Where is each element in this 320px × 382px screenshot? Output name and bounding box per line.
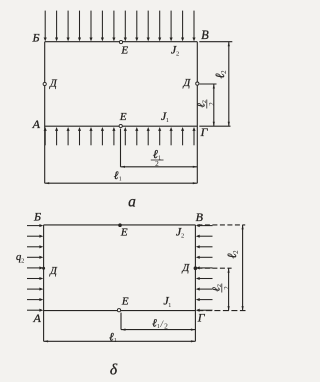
plate a top edge БВ bbox=[45, 41, 198, 43]
extension line from node Е down to l1/2 dimension, plate a bbox=[120, 129, 122, 167]
value label l2/2 (rotated fraction), plate b bbox=[211, 284, 231, 293]
plate b right edge ВГ with extension down bbox=[194, 225, 196, 341]
extension line from corner В to l2 dimension bbox=[199, 41, 232, 43]
distributed load q2 arrows, left edge of plate b (pointing right) bbox=[27, 224, 43, 312]
svg-text:2: 2 bbox=[208, 102, 216, 106]
node Д on left edge of plate b bbox=[42, 266, 58, 277]
node Д on right edge of plate a bbox=[182, 78, 198, 89]
extension line from node Е down to l1/2 dimension, plate b bbox=[120, 313, 122, 330]
plate b bottom edge АГ bbox=[44, 310, 196, 312]
svg-text:Д: Д bbox=[182, 78, 191, 89]
value label l1, plate b bbox=[109, 332, 117, 344]
svg-text:В: В bbox=[196, 210, 204, 224]
svg-text:2: 2 bbox=[155, 159, 159, 168]
svg-text:А: А bbox=[33, 311, 42, 325]
extension line from corner Г to l2 dimension bbox=[199, 125, 230, 127]
svg-text:1: 1 bbox=[166, 117, 169, 124]
value label l2 (rotated), plate a bbox=[213, 70, 228, 79]
node Д on right edge of plate b bbox=[182, 263, 198, 274]
plate b top edge БВ bbox=[44, 224, 196, 226]
svg-text:А: А bbox=[32, 117, 41, 131]
node Е on bottom edge of plate b bbox=[117, 295, 128, 312]
plate a left edge БА with extension down bbox=[44, 42, 46, 184]
stiffness label J1, plate a bottom bbox=[161, 109, 169, 124]
node Б (top-left corner, plate b) bbox=[33, 209, 41, 223]
node Д on left edge of plate a bbox=[43, 78, 58, 89]
node В (top-right corner, plate b) bbox=[196, 210, 204, 224]
svg-text:Г: Г bbox=[197, 310, 206, 324]
svg-text:1: 1 bbox=[114, 338, 117, 344]
value label l1/2 (inline), plate b bbox=[152, 318, 168, 331]
node А (bottom-left corner, plate a) bbox=[32, 117, 41, 131]
stiffness label J1, plate b bottom bbox=[163, 294, 171, 309]
plate a right edge ВГ with extension down bbox=[196, 42, 198, 184]
svg-text:2: 2 bbox=[220, 70, 228, 74]
extension line (dashed) from node Д to l2/2 dimension, plate b bbox=[197, 267, 231, 269]
value label l1, plate a bbox=[114, 170, 122, 183]
dimension line l2/2 (right of plate a) bbox=[213, 84, 215, 126]
svg-text:Д: Д bbox=[182, 263, 191, 274]
extension line (dashed) from corner В to l2 dimension, plate b bbox=[197, 224, 245, 226]
extension line from node Д to l2/2 dimension bbox=[199, 83, 216, 85]
node В (top-right corner, plate a) bbox=[201, 28, 209, 42]
dimension line l2/2 (right of plate b) bbox=[228, 268, 230, 310]
node Е on top edge of plate a bbox=[119, 41, 128, 57]
svg-text:1: 1 bbox=[119, 177, 122, 183]
svg-text:2: 2 bbox=[232, 250, 240, 254]
load value label q2, plate b bbox=[16, 252, 24, 264]
stiffness label J2, plate a top bbox=[171, 42, 179, 57]
dimension line l1 (below plate b) bbox=[44, 340, 196, 342]
value label l2 (rotated), plate b bbox=[225, 250, 240, 259]
svg-text:2: 2 bbox=[181, 233, 184, 240]
plate b left edge БА with extension down bbox=[43, 225, 45, 341]
svg-text:1: 1 bbox=[157, 324, 160, 330]
node А (bottom-left corner, plate b) bbox=[33, 311, 42, 325]
dimension line l2 (right of plate a) bbox=[228, 42, 230, 127]
caption b bbox=[110, 361, 118, 378]
value label l2/2 (rotated fraction), plate a bbox=[196, 100, 216, 109]
svg-text:2: 2 bbox=[164, 321, 168, 330]
svg-text:Б: Б bbox=[31, 30, 39, 44]
svg-text:2: 2 bbox=[21, 258, 24, 265]
extension line from corner Г to l2 dimension, plate b bbox=[197, 310, 245, 312]
dimension line l2 (right of plate b) bbox=[242, 225, 244, 311]
svg-text:Д: Д bbox=[49, 266, 58, 277]
svg-text:1: 1 bbox=[168, 302, 171, 309]
svg-text:Г: Г bbox=[200, 125, 209, 139]
svg-text:Е: Е bbox=[120, 44, 128, 56]
svg-text:Е: Е bbox=[120, 226, 128, 238]
distributed load arrows, right edge of plate b (pointing left) bbox=[196, 224, 213, 312]
svg-text:2: 2 bbox=[176, 50, 179, 57]
stiffness label J2, plate b top bbox=[176, 225, 184, 240]
plate a bottom edge АГ bbox=[45, 125, 198, 127]
svg-text:а: а bbox=[128, 194, 136, 211]
node Б (top-left corner, plate a) bbox=[31, 30, 39, 44]
svg-text:В: В bbox=[201, 28, 209, 42]
distributed load arrows, top edge of plate a (pointing down) bbox=[44, 11, 196, 42]
dimension line l1/2 (below plate a) bbox=[121, 166, 198, 168]
svg-text:Е: Е bbox=[119, 111, 127, 123]
svg-text:Б: Б bbox=[33, 209, 41, 223]
svg-text:Е: Е bbox=[121, 295, 129, 307]
node Е on top edge of plate b bbox=[118, 223, 128, 238]
node Г (bottom-right corner, plate a) bbox=[200, 125, 209, 139]
svg-text:2: 2 bbox=[223, 286, 231, 290]
node Е on bottom edge of plate a bbox=[119, 111, 127, 128]
caption a bbox=[128, 194, 136, 211]
node Г (bottom-right corner, plate b) bbox=[197, 310, 206, 324]
svg-text:Д: Д bbox=[49, 78, 58, 89]
dimension line l1/2 (below plate b) bbox=[121, 329, 195, 331]
svg-text:δ: δ bbox=[110, 361, 118, 378]
dimension line l1 (below plate a) bbox=[45, 182, 198, 184]
value label l1/2 (stacked fraction), plate a bbox=[151, 147, 164, 168]
distributed load arrows, bottom edge of plate a (pointing up) bbox=[44, 127, 196, 145]
